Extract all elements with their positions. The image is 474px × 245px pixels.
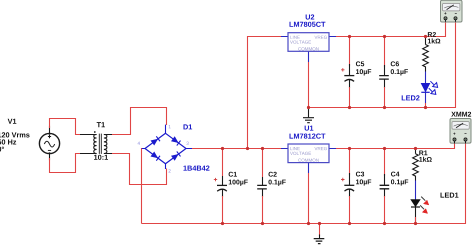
R2 label: [428, 32, 436, 37]
D1 pin 3: [186, 142, 188, 145]
R2 value 1kohm: [428, 38, 441, 43]
R1 value 1kohm: [419, 157, 432, 162]
resistor R1: [413, 149, 419, 181]
ground top section: [303, 108, 314, 123]
capacitor C5: [341, 64, 354, 88]
C4 value 0.1uF: [391, 179, 408, 185]
C2 value 0.1uF: [268, 180, 285, 186]
wire LED1 to ground rail: [415, 207, 417, 224]
C4 label: [391, 172, 400, 177]
D1 pin 1: [169, 125, 171, 128]
U1 label: [305, 126, 314, 131]
junction dots output rail 5V: [348, 35, 427, 38]
LED1: [411, 197, 429, 214]
junction dots U1 output rail: [348, 147, 417, 150]
multimeter XMM1: [441, 0, 463, 22]
wire LED2 to common rail: [425, 92, 427, 103]
V1 label: [8, 119, 17, 124]
capacitor C1: [214, 176, 227, 197]
wire V1 top to T1 primary top: [50, 119, 81, 135]
capacitor C2 wire top: [262, 149, 264, 178]
junction dots ground rail: [221, 222, 417, 225]
bridge rectifier D1: [142, 125, 192, 169]
junction dots common rail 5V: [307, 106, 427, 109]
capacitor C5 wire bottom: [349, 87, 351, 108]
C3 value 10uF: [356, 179, 371, 185]
wire R1 to LED1: [415, 181, 417, 200]
C2 label: [268, 172, 276, 177]
capacitor C3 wire top: [349, 149, 351, 176]
capacitor C3: [341, 173, 354, 197]
D1 value 1B4B42: [183, 166, 209, 171]
C3 label: [356, 172, 364, 177]
ground bottom section: [314, 224, 325, 244]
wire T1 secondary top to bridge pin1: [112, 108, 167, 135]
V1 value 120 Vrms: [0, 132, 30, 137]
common rail of 5V section: [309, 22, 456, 108]
C5 value 10uF: [356, 69, 371, 75]
V1 value 50 Hz: [0, 139, 16, 144]
LED1 label: [440, 193, 458, 198]
D1 label: [183, 124, 192, 129]
capacitor C6 wire top: [384, 37, 386, 68]
LED2 label: [402, 95, 420, 100]
C1 value 100uF: [229, 180, 248, 186]
wire bridge pin4 down to ground rail: [142, 149, 145, 224]
C6 label: [391, 61, 399, 66]
wire U2 output rail: [336, 22, 446, 37]
U2 value LM7805CT: [289, 22, 325, 27]
capacitor C2 wire bottom: [262, 196, 264, 224]
capacitor C4 wire top: [384, 149, 386, 177]
C6 value 0.1uF: [391, 69, 408, 75]
multimeter XMM2: [450, 119, 471, 144]
T1 ratio 10:1: [94, 155, 108, 160]
T1 label: [97, 122, 105, 127]
ground rail bottom: [142, 143, 466, 224]
voltage regulator U2 LM7805CT: [281, 33, 336, 62]
wire U2 common down to common rail: [308, 62, 310, 108]
capacitor C1 wire bottom: [222, 196, 224, 224]
AC source V1: [39, 126, 59, 160]
capacitor C2: [257, 177, 267, 197]
D1 pin 4: [138, 142, 140, 145]
wire V1 bottom to T1 primary bottom: [50, 154, 81, 173]
capacitor C1 wire top: [222, 149, 224, 177]
resistor R2: [423, 37, 429, 72]
U2 label: [306, 14, 315, 19]
D1 pin 2: [169, 169, 171, 172]
capacitor C4 wire bottom: [384, 196, 386, 224]
V1 value 0 deg: [0, 147, 4, 152]
XMM2 label: [451, 112, 471, 117]
wire R2 to LED2: [425, 72, 427, 84]
wire U1 output rail: [336, 143, 455, 149]
R1 label: [419, 150, 427, 155]
capacitor C4: [380, 174, 390, 197]
wire branch up to U2 input: [248, 37, 282, 149]
C5 label: [356, 61, 364, 66]
voltage regulator U1 LM7812CT: [281, 144, 336, 173]
C1 label: [229, 172, 237, 177]
capacitor C3 wire bottom: [349, 196, 351, 224]
wire U1 common down to ground rail: [308, 173, 310, 224]
capacitor C6 wire bottom: [384, 87, 386, 108]
capacitor C5 wire top: [349, 37, 351, 67]
wire T1 secondary bottom to bridge pin2: [112, 154, 167, 185]
wire bridge pin3 to U1 input line: [192, 148, 288, 150]
junction dots U1 input line: [221, 147, 264, 150]
U1 value LM7812CT: [289, 134, 325, 139]
transformer T1: [80, 131, 113, 154]
LED2: [421, 81, 437, 94]
capacitor C6: [379, 65, 389, 88]
